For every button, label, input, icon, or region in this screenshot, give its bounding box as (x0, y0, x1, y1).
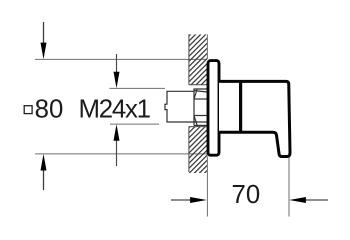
dim arrow square-80 bottom (up) (41, 154, 47, 190)
dim arrow square-80 top (down) (41, 22, 47, 59)
70-dim right arrow (points left) (289, 197, 328, 203)
valve spindle (thin outline with left notch) (165, 91, 207, 122)
extension line top (square-80 upper, y=59.5) (35, 58, 207, 60)
70-dim right extension line (288, 158, 290, 217)
svg-text:80: 80 (35, 95, 64, 123)
70-dim left arrow (points right) (171, 197, 207, 203)
dim arrow M24 bottom (up) (114, 124, 120, 166)
svg-text:70: 70 (232, 181, 261, 209)
extension line bottom (square-80 lower, y=154) (35, 153, 207, 155)
svg-text:M24x1: M24x1 (79, 95, 152, 123)
extension line M24 lower (110, 123, 159, 125)
handle knob outline (219, 81, 290, 156)
valve nut behind wall (194, 89, 207, 125)
handle back face edge (239, 80, 242, 133)
extension line M24 upper (110, 87, 166, 89)
dim arrow M24 top (down) (114, 54, 120, 88)
wall face / 70-dim left extension line (206, 157, 208, 217)
label square-80 symbol (24, 106, 32, 114)
escutcheon plate (208, 61, 219, 156)
wall face line upper segment (206, 34, 208, 59)
wall lower hatch block (189, 127, 207, 173)
wall upper hatch block (189, 34, 207, 84)
